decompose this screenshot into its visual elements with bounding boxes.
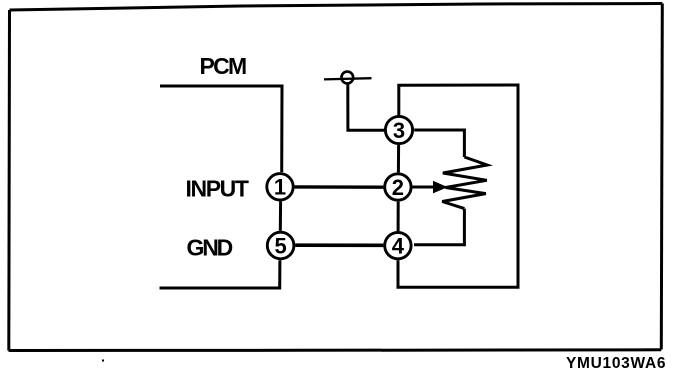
wire: resistor bottom to pin 4 xyxy=(414,209,464,245)
pin 4 xyxy=(385,232,411,258)
pin 1 xyxy=(267,174,293,200)
svg-text:YMU103WA6: YMU103WA6 xyxy=(566,355,666,372)
svg-text:4: 4 xyxy=(392,234,405,259)
pin 5 xyxy=(267,232,294,259)
svg-text:PCM: PCM xyxy=(200,53,246,79)
svg-text:3: 3 xyxy=(393,118,405,143)
wire INPUT: pin 1 to pin 2 xyxy=(295,185,384,189)
svg-text:INPUT: INPUT xyxy=(186,176,249,202)
pin 2 xyxy=(385,174,411,200)
svg-text:5: 5 xyxy=(274,233,286,258)
wire: pin 3 to resistor top xyxy=(414,130,464,157)
wiper arrow from pin 2 xyxy=(412,181,447,194)
resistor element (potentiometer track) xyxy=(442,157,487,209)
svg-text:GND: GND xyxy=(187,235,233,261)
wire GND: pin 5 to pin 4 xyxy=(295,243,383,247)
pin 3 xyxy=(385,116,412,143)
open terminal (unconnected test lead) xyxy=(324,72,372,84)
sensor housing box xyxy=(398,85,518,287)
svg-text:2: 2 xyxy=(392,175,404,200)
svg-text:1: 1 xyxy=(274,175,286,200)
scan speck (decorative) xyxy=(102,360,104,362)
PCM connector housing (open bracket) xyxy=(160,86,283,288)
wire: open terminal down to pin 3 xyxy=(348,84,384,130)
